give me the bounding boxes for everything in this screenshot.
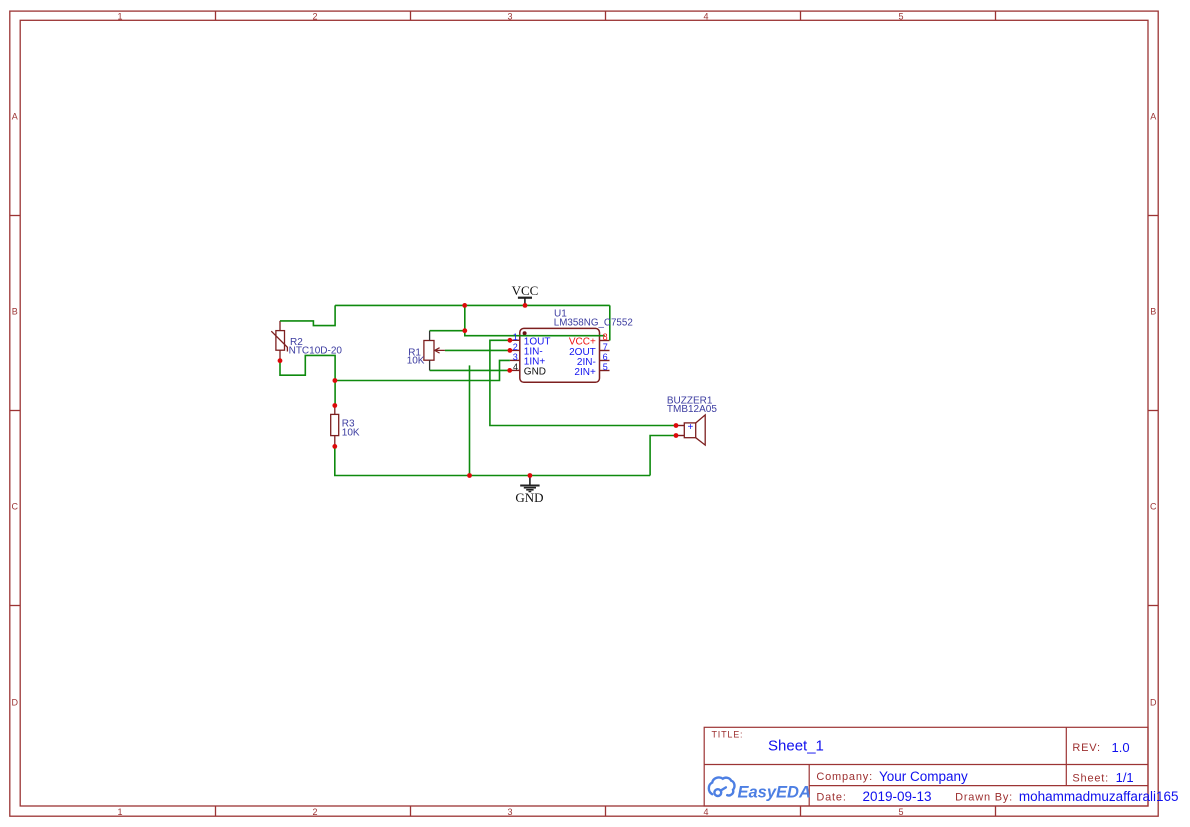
svg-text:10K: 10K <box>342 427 360 438</box>
svg-text:4: 4 <box>703 11 708 21</box>
svg-text:NTC10D-20: NTC10D-20 <box>289 345 343 356</box>
junction node dots <box>278 303 679 478</box>
thermistor R2 NTC10D-20 <box>271 321 287 361</box>
svg-text:6: 6 <box>603 352 608 362</box>
resistor R3 10K <box>331 406 339 447</box>
svg-text:4: 4 <box>513 362 518 372</box>
node: GND rail / dangler <box>467 473 472 478</box>
wire U1 pin 1 to buzzer plus <box>490 340 676 425</box>
svg-text:3: 3 <box>513 352 518 362</box>
svg-text:7: 7 <box>603 342 608 352</box>
wire node A to U1 pin 3 <box>335 360 510 380</box>
svg-text:EasyEDA: EasyEDA <box>738 784 811 802</box>
svg-text:5: 5 <box>603 362 608 372</box>
wire dangling vertical to GND rail <box>469 365 471 475</box>
svg-text:B: B <box>1150 307 1156 317</box>
U1 pin 2 stub <box>510 349 520 351</box>
svg-text:4: 4 <box>703 807 708 817</box>
svg-text:1/1: 1/1 <box>1116 770 1134 785</box>
U1 pin 1 stub <box>510 339 520 341</box>
svg-text:TMB12A05: TMB12A05 <box>667 404 717 415</box>
U1 reference labels <box>554 309 633 329</box>
wire VCC rail <box>335 304 610 306</box>
svg-text:1: 1 <box>117 11 122 21</box>
wire GND rail <box>335 446 650 475</box>
svg-text:2: 2 <box>312 11 317 21</box>
svg-text:2: 2 <box>513 342 518 352</box>
svg-text:Drawn By:: Drawn By: <box>955 791 1013 803</box>
svg-text:REV:: REV: <box>1072 742 1100 754</box>
node A: R2/R3 divider tap <box>333 378 338 383</box>
svg-text:8: 8 <box>603 332 608 342</box>
svg-text:1.0: 1.0 <box>1112 740 1130 755</box>
node: U1 pin 1 <box>508 338 513 343</box>
svg-text:LM358NG_C7552: LM358NG_C7552 <box>554 318 633 329</box>
wire R2 bottom jog to node A <box>280 355 335 405</box>
title block <box>704 727 1148 806</box>
U1 pin 8 stub <box>600 340 610 342</box>
node: R1 top tee <box>462 328 467 333</box>
node: U1 pin 2 <box>508 348 513 353</box>
svg-text:C: C <box>12 502 19 512</box>
U1 pin 5 stub <box>600 370 610 372</box>
U1 pin 4 stub <box>510 369 520 371</box>
svg-text:1: 1 <box>117 807 122 817</box>
svg-text:GND: GND <box>524 366 546 377</box>
svg-text:A: A <box>1150 112 1156 122</box>
wire buzzer minus to GND rail <box>650 436 676 476</box>
svg-text:2019-09-13: 2019-09-13 <box>863 789 932 804</box>
svg-text:Company:: Company: <box>816 771 873 783</box>
svg-text:VCC: VCC <box>512 283 539 298</box>
wire VCC vertical tee over U1 <box>465 305 605 335</box>
svg-text:10K: 10K <box>407 355 425 366</box>
svg-text:5: 5 <box>898 807 903 817</box>
node: U1 pin 4 <box>507 368 512 373</box>
svg-text:5: 5 <box>898 11 903 21</box>
U1 pin names <box>524 336 596 378</box>
wire VCC rail drop to U1 pin 8 <box>609 305 611 340</box>
svg-text:B: B <box>12 307 18 317</box>
svg-text:+: + <box>688 422 694 433</box>
U1 pin numbers <box>513 332 608 372</box>
svg-text:2: 2 <box>312 807 317 817</box>
R1 labels <box>407 347 425 366</box>
node: R3 top <box>332 403 337 408</box>
VCC power symbol <box>518 298 532 306</box>
resistor R1 10K potentiometer <box>424 331 445 371</box>
U1 pin 3 stub <box>510 359 520 361</box>
wire R1 bottom to U1 pin 4 <box>430 369 510 371</box>
svg-text:A: A <box>12 112 18 122</box>
svg-text:Sheet:: Sheet: <box>1072 773 1109 785</box>
EasyEDA logo <box>709 777 735 796</box>
node: buzzer plus <box>674 423 679 428</box>
R2 labels <box>289 337 343 356</box>
svg-text:Sheet_1: Sheet_1 <box>768 738 824 755</box>
title block values <box>768 738 1178 804</box>
svg-text:C: C <box>1150 502 1157 512</box>
ground symbol GND <box>520 476 539 492</box>
node: GND rail / GND stem <box>528 473 533 478</box>
title block labels <box>712 730 1110 804</box>
wire R1 top to VCC tee <box>430 330 465 332</box>
U1 pin 6 stub <box>600 360 610 362</box>
svg-text:TITLE:: TITLE: <box>712 730 744 740</box>
svg-text:3: 3 <box>507 807 512 817</box>
buzzer labels <box>667 395 717 415</box>
svg-text:Your Company: Your Company <box>879 769 968 784</box>
svg-text:1: 1 <box>513 332 518 342</box>
node: R2 bottom <box>278 358 283 363</box>
wire U1 pin 2 to R1 wiper <box>445 349 510 351</box>
svg-text:3: 3 <box>507 11 512 21</box>
wire R2 top to VCC rail <box>280 305 335 325</box>
op-amp U1 LM358NG_C7552 body <box>520 328 600 382</box>
svg-text:GND: GND <box>515 490 543 505</box>
svg-text:D: D <box>12 698 19 708</box>
svg-text:Date:: Date: <box>816 792 846 804</box>
node: rail / VCC stem <box>523 303 528 308</box>
buzzer BUZZER1 TMB12A05 <box>676 415 705 445</box>
U1 pin 7 stub <box>600 350 610 352</box>
svg-text:mohammadmuzaffarali165: mohammadmuzaffarali165 <box>1019 789 1179 804</box>
node: rail / vertical tee <box>462 303 467 308</box>
node: buzzer minus <box>674 433 679 438</box>
svg-text:2IN+: 2IN+ <box>574 367 596 378</box>
node: R3 bottom <box>332 444 337 449</box>
svg-text:D: D <box>1150 698 1157 708</box>
R3 labels <box>342 419 360 439</box>
